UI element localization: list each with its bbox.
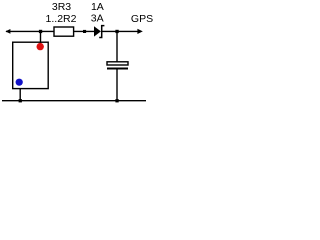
wire: resistor to diode: [74, 30, 95, 32]
terminal: blue dot (-): [16, 79, 23, 86]
diode D1 (zener) anode triangle: [94, 26, 101, 36]
wire: diode to output arrow: [102, 30, 139, 32]
wire: vertical to capacitor: [116, 31, 118, 62]
svg-text:3R3: 3R3: [52, 1, 71, 13]
svg-text:GPS: GPS: [131, 13, 153, 25]
capacitor C1 bottom plate (solid): [107, 68, 128, 70]
node C: junction dot bottom-right: [115, 99, 118, 102]
diode D1 cathode bar with zener hooks: [99, 26, 104, 38]
node E: junction dot on output wire: [115, 30, 118, 33]
wire: top rail left segment: [6, 30, 54, 32]
wire: from box bottom to ground rail: [19, 89, 21, 101]
wire: capacitor to ground rail: [116, 70, 118, 101]
svg-text:3A: 3A: [91, 13, 104, 25]
node D: junction dot between R and D: [83, 30, 86, 33]
box U1: battery/module outline: [13, 42, 49, 88]
terminal: red dot (+): [37, 43, 44, 50]
arrow: left-pointing input arrow: [5, 29, 10, 34]
node B: junction dot bottom-left: [19, 99, 22, 102]
node A: junction dot top-left: [39, 30, 42, 33]
svg-text:1..2R2: 1..2R2: [46, 13, 77, 25]
svg-text:1A: 1A: [91, 1, 104, 13]
resistor R1 body: [54, 27, 74, 36]
wire: vertical from junction into box: [40, 31, 42, 43]
wire: bottom ground rail: [2, 100, 146, 102]
capacitor C1 top plate (hollow): [107, 62, 128, 65]
arrow: right-pointing GPS output arrow: [137, 29, 142, 34]
